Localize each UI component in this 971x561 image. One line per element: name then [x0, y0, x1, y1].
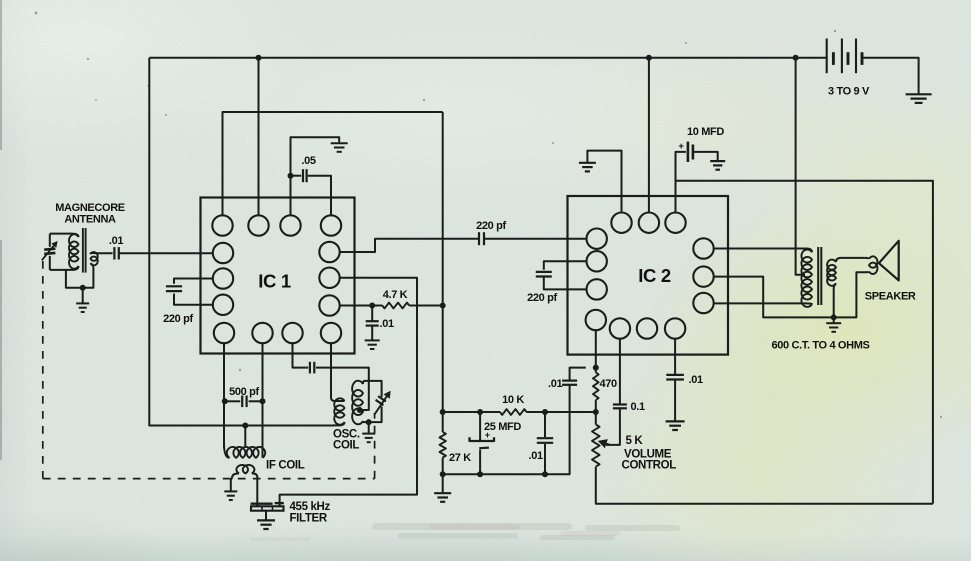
capacitor osc feedback — [309, 362, 311, 374]
svg-text:470: 470 — [600, 378, 618, 390]
speaker horn — [879, 241, 899, 281]
node 27K bottom junction — [440, 471, 446, 477]
wire IC1 pin R1 to coupling cap — [340, 239, 480, 252]
wire IC1 pin T1 up and across to 27K branch — [223, 112, 443, 216]
resistor 4.7K — [382, 303, 409, 309]
paper specks — [35, 12, 943, 419]
svg-text:.01: .01 — [109, 235, 123, 247]
ground IC2 T1 — [579, 162, 596, 164]
wiper arrow — [606, 444, 610, 445]
node junction at battery tap — [793, 55, 799, 61]
capacitor 220pf IC1 — [166, 285, 182, 287]
wire IC2 pin L2 to 220pf — [544, 261, 587, 269]
ground .01 at 4.7K — [365, 339, 380, 341]
capacitor .01 at IC2 input — [562, 380, 577, 382]
svg-text:IC 1: IC 1 — [258, 271, 291, 292]
antenna tuning loop top — [50, 233, 72, 235]
wire IC1 pin R2 to filter — [280, 278, 417, 506]
node antenna ground junction — [80, 285, 86, 291]
wire .01 stub — [371, 306, 373, 322]
resistor 470 — [593, 373, 599, 401]
svg-text:.01: .01 — [689, 374, 703, 386]
variable capacitor osc tuning — [376, 400, 384, 405]
wire left feed down to IF coil tap rail — [149, 58, 333, 426]
wire IC1 pin B2 down — [262, 343, 264, 449]
node 4.7K left junction — [369, 303, 375, 309]
ground IC2 B3 — [666, 420, 685, 422]
capacitor 500 pf — [241, 396, 243, 408]
wire dashed gang bottom — [43, 478, 375, 480]
wire top supply rail — [149, 57, 826, 59]
capacitor .01 at IC2 B3 — [666, 374, 684, 376]
svg-text:10 K: 10 K — [502, 394, 524, 406]
svg-text:5 K: 5 K — [626, 435, 644, 447]
scan noise texture — [0, 0, 1, 1]
wire .01 to ground — [371, 326, 373, 340]
battery 3 TO 9 V — [826, 39, 828, 74]
wire .05 right lead to IC1 pin T4 — [308, 176, 331, 216]
capacitor .05 — [302, 169, 304, 182]
svg-text:SPEAKER: SPEAKER — [865, 291, 916, 303]
ground 10MFD — [710, 160, 725, 162]
wire right rail up — [676, 181, 933, 504]
wire IC2 pin R3 to transformer bottom — [714, 302, 813, 305]
wire bottom return rail — [443, 385, 570, 474]
node 4.7K right junction — [440, 303, 446, 309]
svg-text:500 pf: 500 pf — [229, 386, 259, 398]
transformer core — [817, 247, 819, 305]
svg-text:IF COIL: IF COIL — [266, 460, 305, 472]
svg-text:4.7 K: 4.7 K — [383, 289, 408, 301]
node junction 470 top — [593, 365, 599, 371]
svg-text:CONTROL: CONTROL — [622, 460, 677, 472]
op-amp IC1 body — [201, 198, 355, 354]
svg-text:10 MFD: 10 MFD — [687, 126, 724, 138]
wire IF coil tap — [244, 426, 246, 447]
wire 4.7K to vertical branch — [409, 305, 443, 307]
ground above IC1 — [331, 142, 348, 144]
wire .01 B3 to ground — [674, 380, 676, 421]
wire IC2 pin B1 down — [619, 339, 621, 405]
inductor output transformer secondary — [836, 258, 841, 262]
wire IC1 pin T3 up to ground stub — [291, 137, 340, 215]
wire IF secondary left to ground — [231, 478, 232, 491]
wire dashed gang right — [374, 413, 376, 479]
capacitor 220 pf coupling — [478, 232, 480, 245]
potentiometer 5K volume control — [592, 425, 600, 467]
wire IC2 pin R2 to speaker return — [714, 272, 867, 317]
wire .01 IC2 input to junction — [570, 368, 586, 381]
svg-text:IC 2: IC 2 — [638, 265, 671, 286]
ground IF secondary — [224, 490, 237, 492]
wire rail to IC1 pin T2 — [258, 58, 260, 216]
wire IC2 pin T3 up — [676, 152, 686, 213]
resistor 27K — [440, 432, 446, 458]
svg-text:600 C.T. TO 4 OHMS: 600 C.T. TO 4 OHMS — [772, 340, 870, 352]
wire battery tap down to output transformer center tap — [796, 58, 805, 275]
ground speaker — [826, 322, 841, 324]
svg-text:220 pf: 220 pf — [163, 313, 193, 325]
wire antenna to .01 cap — [92, 252, 113, 254]
wire IC1 pin B1 down — [223, 343, 225, 449]
ground antenna — [76, 302, 89, 304]
svg-text:+: + — [678, 141, 684, 152]
node 25MFD top — [477, 409, 483, 415]
node 25MFD bottom — [477, 471, 483, 477]
wire IF secondary right to filter — [256, 477, 258, 506]
wire coupling cap to IC2 pin L1 — [484, 238, 587, 240]
variable capacitor antenna tuning — [49, 234, 51, 247]
node 500pf left — [222, 398, 228, 404]
svg-text:0.1: 0.1 — [631, 401, 645, 413]
svg-text:COIL: COIL — [333, 440, 359, 452]
wire pot bottom to bottom rail — [596, 467, 933, 504]
wire 10K to .01 — [527, 411, 596, 413]
node junction on rail above IC2 — [646, 55, 652, 61]
node junction .05 left — [288, 173, 294, 179]
svg-text:.01: .01 — [548, 378, 562, 390]
wire .01 to bottom rail — [544, 444, 546, 474]
resistor 10K — [500, 409, 527, 415]
wire .01 cap to IC1 pin L1 — [119, 252, 213, 254]
ground filter — [257, 519, 275, 521]
node osc coil tap — [357, 407, 363, 413]
antenna coil secondary — [91, 252, 93, 255]
wire dashed gang left — [42, 261, 44, 479]
node junction on rail above IC1 — [256, 55, 262, 61]
capacitor .01 bottom middle — [537, 437, 553, 439]
svg-text:MAGNECORE: MAGNECORE — [55, 202, 125, 214]
wire 27K lower to ground — [442, 458, 444, 493]
capacitor 220 pf IC2 — [536, 271, 552, 273]
455 kHz filter body — [251, 506, 284, 510]
inductor osc coil secondary — [363, 381, 365, 384]
node .01 bottom junction — [542, 471, 548, 477]
wire IC2 pin T1 to ground — [587, 151, 621, 213]
wire osc tank right lower — [365, 407, 382, 423]
capacitor 10 MFD electrolytic — [687, 142, 690, 162]
IC1 pin pads — [212, 215, 232, 235]
wire 0.1 to wiper — [606, 408, 620, 445]
svg-text:FILTER: FILTER — [290, 513, 328, 525]
node .01 bottom-mid top — [542, 409, 548, 415]
wire osc ground stub — [368, 422, 370, 433]
svg-text:3 TO 9 V: 3 TO 9 V — [828, 86, 870, 98]
wire 27K branch upper — [442, 112, 444, 432]
node IF coil tap junction — [242, 423, 248, 429]
svg-text:27 K: 27 K — [449, 452, 471, 464]
node 27K top junction — [440, 409, 446, 415]
wire .01 bottom-mid stub — [544, 412, 546, 437]
wire filter to ground — [265, 511, 267, 520]
capacitor .01 antenna coupling — [113, 247, 115, 259]
inductor IF coil secondary — [232, 473, 239, 477]
ground 27K — [434, 492, 451, 494]
wire IC2 pin L4 down — [595, 330, 597, 373]
svg-text:.05: .05 — [301, 155, 315, 167]
node 500pf right — [260, 398, 266, 404]
wire 10MFD to ground — [693, 152, 718, 160]
svg-text:220 pf: 220 pf — [527, 292, 557, 304]
svg-text:220 pf: 220 pf — [476, 220, 506, 232]
svg-text:25 MFD: 25 MFD — [484, 421, 521, 433]
IC2 pin pads — [611, 213, 631, 233]
wire IC2 pin B3 down — [674, 339, 676, 375]
node osc ground junction — [366, 419, 372, 425]
wire speaker ground stub — [833, 317, 835, 322]
capacitor 25 MFD electrolytic — [470, 437, 495, 441]
svg-text:.01: .01 — [529, 450, 543, 462]
capacitor .01 at 4.7K — [366, 320, 379, 322]
wire 220pf to IC1 pin L3 — [174, 294, 213, 305]
wire antenna bottom return — [50, 268, 94, 288]
speaker voice coil — [865, 258, 869, 259]
capacitor 0.1 — [613, 403, 627, 405]
wire IC1 pin R3 lead — [340, 305, 383, 307]
wire secondary bottom to ground — [833, 289, 835, 318]
wire 470 to pot — [595, 400, 597, 425]
wire .05 left lead — [291, 175, 302, 177]
wire IC1 pin B4 down — [330, 343, 332, 398]
wire AGC rail — [443, 411, 500, 413]
wire 25MFD to bottom rail — [479, 450, 481, 475]
wire cap to osc tap — [316, 368, 369, 410]
inductor output transformer primary — [801, 250, 812, 307]
wire osc tank top — [365, 381, 382, 397]
scanner edge streaks — [0, 0, 2, 460]
node junction 470 bottom — [593, 409, 599, 415]
wire IC1 pin L2 to 220pf — [174, 279, 213, 284]
faint ghost print at bottom — [250, 523, 680, 541]
ground battery — [906, 93, 932, 95]
wire battery positive to ground — [862, 58, 919, 94]
wire 500pf left lead — [225, 400, 240, 402]
antenna core — [82, 228, 84, 273]
svg-text:ANTENNA: ANTENNA — [64, 214, 116, 226]
wire IC2 pin R1 to transformer — [714, 249, 813, 253]
node speaker ground junction — [831, 314, 837, 320]
wire 500pf right lead — [249, 400, 263, 402]
op-amp IC2 body — [568, 196, 729, 355]
wire antenna ground stub — [82, 288, 84, 303]
wire secondary top to speaker — [841, 257, 865, 259]
svg-text:OSC.: OSC. — [333, 428, 360, 440]
wire rail to IC2 pin T2 — [648, 58, 650, 213]
svg-text:455 kHz: 455 kHz — [290, 501, 331, 513]
wire IC1 pin B3 down — [293, 343, 309, 368]
ground osc coil — [362, 433, 375, 435]
inductor IF coil primary — [224, 443, 230, 458]
antenna coil primary — [72, 234, 79, 237]
svg-text:.01: .01 — [380, 318, 394, 330]
wire 25MFD stub — [479, 412, 481, 441]
inductor osc coil primary — [331, 398, 345, 402]
wire 220pf to IC2 pin L3 — [544, 277, 587, 290]
